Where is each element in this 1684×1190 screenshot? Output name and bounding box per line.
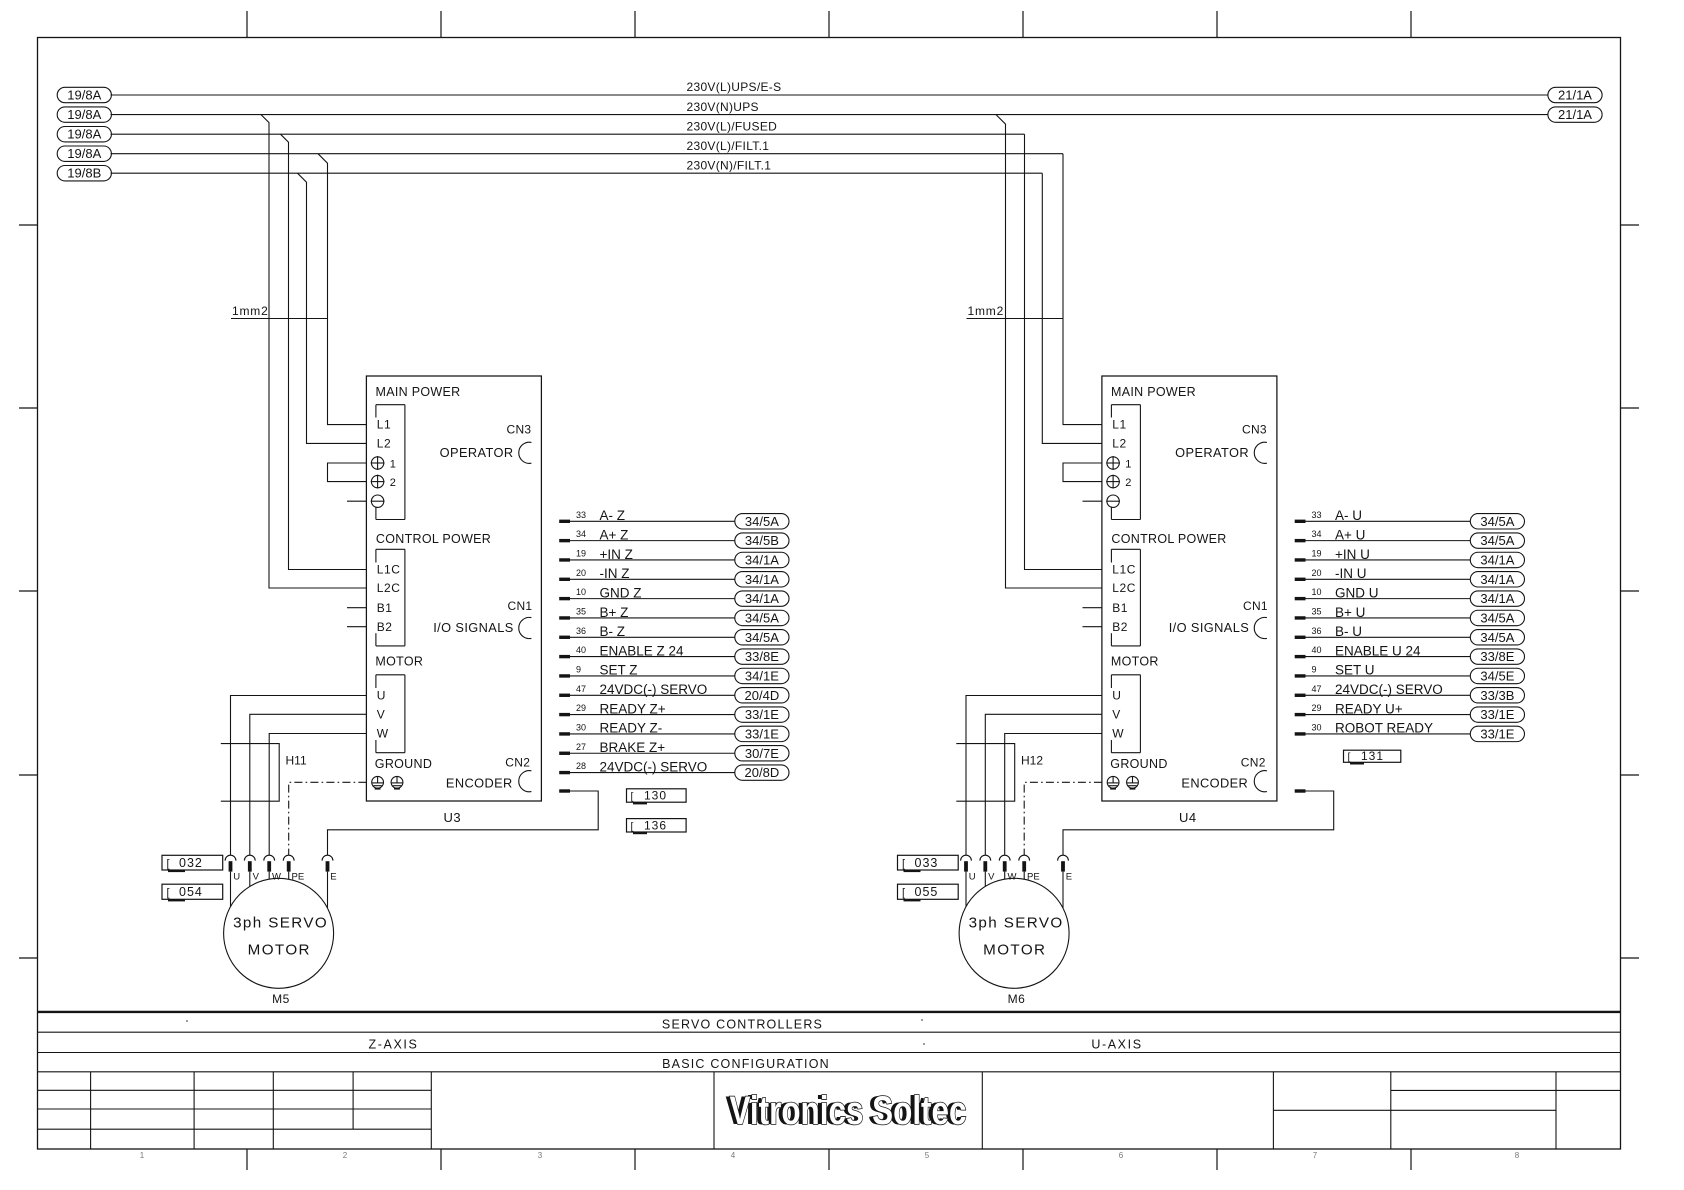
svg-text:READY Z-: READY Z- — [600, 721, 663, 736]
svg-text:19: 19 — [576, 549, 586, 559]
svg-text:35: 35 — [1312, 607, 1322, 617]
svg-text:34/1A: 34/1A — [745, 552, 779, 567]
svg-text:33/1E: 33/1E — [1480, 707, 1514, 722]
svg-text:V: V — [988, 872, 995, 883]
U4 pin 9 SET U wire to net 34/5E — [1295, 663, 1525, 684]
node ref 19/8A rail3 left — [57, 127, 111, 142]
drawing area bottom separator — [38, 1011, 1621, 1013]
U4 pin 36 B- U wire to net 34/5A — [1295, 624, 1525, 645]
svg-text:33/8E: 33/8E — [745, 649, 779, 664]
svg-text:19/8B: 19/8B — [67, 166, 101, 181]
U4 pin 30 ROBOT READY wire to net 33/1E — [1295, 721, 1525, 742]
svg-text:230V(L)UPS/E-S: 230V(L)UPS/E-S — [687, 80, 782, 94]
svg-text:[: [ — [167, 887, 170, 899]
svg-text:33/8E: 33/8E — [1480, 649, 1514, 664]
svg-text:OPERATOR: OPERATOR — [440, 445, 514, 460]
svg-text:230V(N)/FILT.1: 230V(N)/FILT.1 — [687, 158, 772, 172]
svg-text:GND Z: GND Z — [600, 585, 642, 600]
svg-text:B1: B1 — [377, 601, 393, 615]
svg-text:131: 131 — [1361, 749, 1384, 763]
U4 connector ENCODER — [1181, 771, 1266, 792]
cable box 033 — [898, 855, 959, 872]
wire M5 contact V into motor — [249, 872, 251, 887]
svg-text:36: 36 — [576, 626, 586, 636]
svg-text:1mm2: 1mm2 — [232, 304, 269, 318]
wire U4 W phase to motor M6 — [1005, 734, 1102, 856]
bottom margin zone ticks — [247, 1149, 1411, 1170]
U3 MAIN POWER terminal box — [376, 405, 405, 520]
svg-text:CN2: CN2 — [1241, 756, 1266, 770]
svg-text:CN3: CN3 — [1242, 423, 1267, 437]
U3 earth terminal 1 — [371, 456, 396, 471]
U3 pin 28 24VDC(-) SERVO wire to net 20/8D — [559, 759, 789, 780]
wire branch 230V(L)/FUSED to U3 L1C — [281, 134, 367, 569]
svg-text:34: 34 — [1312, 529, 1322, 539]
svg-text:34/5A: 34/5A — [745, 514, 779, 529]
svg-text:GROUND: GROUND — [375, 757, 432, 771]
svg-text:OPERATOR: OPERATOR — [1175, 445, 1249, 460]
U3 pin 47 24VDC(-) SERVO wire to net 20/4D — [559, 682, 789, 703]
svg-text:ENCODER: ENCODER — [1181, 776, 1248, 791]
svg-text:20: 20 — [1312, 568, 1322, 578]
U3 terminal B1 — [347, 601, 393, 615]
svg-text:GND U: GND U — [1335, 585, 1379, 600]
svg-text:A- Z: A- Z — [600, 508, 626, 523]
motor M5 plug contact E — [322, 855, 337, 882]
svg-text:READY U+: READY U+ — [1335, 701, 1403, 716]
wire M6 contact PE into motor — [1023, 872, 1025, 880]
right margin zone ticks — [1621, 225, 1640, 958]
svg-text:8: 8 — [1515, 1151, 1520, 1160]
svg-text:29: 29 — [576, 703, 586, 713]
svg-text:L1C: L1C — [1112, 563, 1136, 577]
svg-text:ENABLE U 24: ENABLE U 24 — [1335, 643, 1421, 658]
svg-text:Z-AXIS: Z-AXIS — [369, 1038, 419, 1052]
svg-text:10: 10 — [1312, 587, 1322, 597]
svg-text:33: 33 — [576, 510, 586, 520]
svg-text:29: 29 — [1312, 703, 1322, 713]
U3 pin 20 -IN Z wire to net 34/1A — [559, 566, 789, 587]
wire branch 230V(N)UPS to U3 L2C — [261, 115, 366, 588]
svg-text:20/4D: 20/4D — [745, 688, 780, 703]
svg-text:19: 19 — [1312, 549, 1322, 559]
U4 pin 20 -IN U wire to net 34/1A — [1295, 566, 1525, 587]
title block table — [38, 1072, 1621, 1149]
U3 pin 40 ENABLE Z 24 wire to net 33/8E — [559, 643, 789, 664]
wire U4 U phase to motor M6 — [966, 696, 1102, 856]
svg-text:7: 7 — [1313, 1151, 1318, 1160]
U4 jumper wire terminals 1-2 — [1063, 463, 1102, 482]
U3 encoder pin — [559, 789, 570, 792]
svg-text:CONTROL POWER: CONTROL POWER — [1111, 532, 1226, 546]
motor M6 3ph SERVO MOTOR — [959, 878, 1069, 988]
svg-text:[: [ — [902, 858, 905, 870]
svg-text:BRAKE Z+: BRAKE Z+ — [600, 740, 666, 755]
U4 terminal B1 — [1083, 601, 1129, 615]
svg-text:BASIC CONFIGURATION: BASIC CONFIGURATION — [662, 1057, 830, 1071]
wire ground dash-dot U4 to motor PE — [1024, 782, 1102, 855]
svg-text:MOTOR: MOTOR — [1111, 655, 1159, 669]
wire M6 contact E into motor — [1062, 872, 1064, 909]
svg-text:A- U: A- U — [1335, 508, 1362, 523]
cable box 136 — [627, 818, 687, 834]
svg-text:READY Z+: READY Z+ — [600, 701, 666, 716]
svg-text:U3: U3 — [444, 810, 462, 825]
U4 pin 47 24VDC(-) SERVO wire to net 33/3B — [1295, 682, 1525, 703]
wire M5 contact E into motor — [327, 872, 329, 909]
motor M6 plug contact PE — [1019, 855, 1040, 882]
wire rail net 230V(N)UPS — [111, 100, 1549, 115]
svg-text:U: U — [969, 872, 976, 883]
svg-text:230V(L)/FILT.1: 230V(L)/FILT.1 — [687, 139, 770, 153]
title band Z-AXIS / U-AXIS — [38, 1038, 1621, 1053]
U3 pin 33 A- Z wire to net 34/5A — [559, 508, 789, 529]
U4 encoder pin — [1295, 789, 1306, 792]
svg-text:4: 4 — [731, 1151, 736, 1160]
motor M5 plug contact V — [244, 855, 259, 882]
svg-text:230V(L)/FUSED: 230V(L)/FUSED — [687, 119, 778, 133]
bottom zone numbers — [140, 1151, 1520, 1160]
top margin zone ticks — [247, 11, 1411, 38]
svg-text:MOTOR: MOTOR — [983, 942, 1046, 959]
svg-text:136: 136 — [644, 818, 667, 832]
svg-text:L2C: L2C — [377, 581, 401, 595]
wire M6 contact V into motor — [984, 872, 986, 887]
svg-text:1mm2: 1mm2 — [968, 304, 1005, 318]
motor M5 plug contact PE — [283, 855, 304, 882]
ferrite core H12 — [956, 744, 1043, 802]
svg-text:L1C: L1C — [377, 563, 401, 577]
U4 block outline — [1102, 376, 1277, 801]
node ref 19/8A rail1 left — [57, 87, 111, 102]
svg-text:B- U: B- U — [1335, 624, 1362, 639]
svg-text:B2: B2 — [377, 620, 393, 634]
wire U3 V phase to motor M5 — [250, 714, 367, 855]
svg-text:W: W — [377, 727, 389, 741]
cable box 054 — [162, 884, 223, 901]
svg-text:34/5A: 34/5A — [1480, 514, 1514, 529]
U3 connector ENCODER — [446, 771, 531, 792]
motor M6 plug contact W — [999, 855, 1016, 882]
svg-text:SERVO CONTROLLERS: SERVO CONTROLLERS — [662, 1018, 823, 1032]
svg-text:+IN Z: +IN Z — [600, 547, 633, 562]
svg-text:3ph SERVO: 3ph SERVO — [969, 915, 1064, 932]
U3 pin 35 B+ Z wire to net 34/5A — [559, 605, 789, 626]
svg-text:19/8A: 19/8A — [67, 146, 101, 161]
node ref 21/1A rail1 right — [1548, 87, 1602, 102]
svg-text:MAIN POWER: MAIN POWER — [1111, 385, 1196, 399]
wire branch 230V(L)/FUSED to U4 L1C — [1025, 134, 1102, 569]
motor M5 plug contact W — [264, 855, 281, 882]
U4 pin 19 +IN U wire to net 34/1A — [1295, 547, 1525, 568]
svg-text:I/O SIGNALS: I/O SIGNALS — [433, 620, 514, 635]
svg-text:U: U — [1112, 689, 1121, 703]
node ref 21/1A rail2 right — [1548, 107, 1602, 122]
svg-text:24VDC(-) SERVO: 24VDC(-) SERVO — [600, 682, 708, 697]
U3 minus terminal stub wire — [347, 500, 366, 502]
U3 connector I/O SIGNALS — [433, 617, 531, 638]
motor M6 plug contact U — [961, 855, 976, 882]
svg-text:36: 36 — [1312, 626, 1322, 636]
svg-text:34/5B: 34/5B — [745, 533, 779, 548]
wire M5 contact W into motor — [268, 872, 270, 880]
wire branch 230V(L)/FILT.1 to U4 L1 — [1063, 154, 1102, 425]
svg-text:U-AXIS: U-AXIS — [1091, 1038, 1142, 1052]
svg-text:[: [ — [167, 858, 170, 870]
svg-text:24VDC(-) SERVO: 24VDC(-) SERVO — [1335, 682, 1443, 697]
svg-text:Vitronics Soltec: Vitronics Soltec — [730, 1089, 967, 1133]
wire ground dash-dot U3 to motor PE — [289, 782, 367, 855]
svg-text:L2C: L2C — [1112, 581, 1136, 595]
svg-text:1: 1 — [1125, 459, 1131, 471]
wire rail net 230V(L)/FUSED — [111, 119, 1025, 134]
svg-text:40: 40 — [1312, 645, 1322, 655]
svg-text:30: 30 — [1312, 723, 1322, 733]
svg-text:ENABLE Z 24: ENABLE Z 24 — [600, 643, 685, 658]
cable box 032 — [162, 855, 223, 872]
U3 terminal B2 — [347, 620, 393, 634]
svg-text:34/1A: 34/1A — [745, 572, 779, 587]
svg-text:054: 054 — [179, 885, 203, 899]
svg-text:E: E — [330, 872, 336, 883]
svg-text:CN2: CN2 — [505, 756, 530, 770]
svg-text:20: 20 — [576, 568, 586, 578]
node ref 19/8B rail5 left — [57, 166, 111, 181]
svg-text:055: 055 — [915, 885, 939, 899]
U3 connector OPERATOR — [440, 442, 532, 463]
U3 pin 10 GND Z wire to net 34/1A — [559, 585, 789, 606]
cable box 130 — [627, 789, 687, 805]
wire U4 encoder CN2 to motor M6 contact E — [1063, 791, 1334, 855]
annotation 1mm2 right — [967, 304, 1064, 319]
wire rail net 230V(L)/FILT.1 — [111, 139, 1063, 154]
svg-text:E: E — [1066, 872, 1072, 883]
svg-text:24VDC(-) SERVO: 24VDC(-) SERVO — [600, 759, 708, 774]
svg-text:B- Z: B- Z — [600, 624, 626, 639]
svg-text:B1: B1 — [1112, 601, 1128, 615]
svg-text:CN3: CN3 — [506, 423, 531, 437]
svg-text:9: 9 — [1312, 665, 1317, 675]
svg-text:21/1A: 21/1A — [1558, 88, 1592, 103]
U4 pin 35 B+ U wire to net 34/5A — [1295, 605, 1525, 626]
U3 CONTROL POWER terminal box — [376, 549, 405, 646]
svg-text:19/8A: 19/8A — [67, 107, 101, 122]
svg-text:A+ Z: A+ Z — [600, 527, 629, 542]
wire branch 230V(L)/FILT.1 to U3 L1 — [318, 154, 366, 425]
svg-text:33/1E: 33/1E — [745, 726, 779, 741]
wire U3 W phase to motor M5 — [269, 734, 366, 856]
motor M6 plug contact V — [980, 855, 995, 882]
U3 block outline — [366, 376, 541, 801]
U4 pin 40 ENABLE U 24 wire to net 33/8E — [1295, 643, 1525, 664]
wire M5 contact U into motor — [230, 872, 232, 907]
ferrite core H11 — [221, 744, 307, 802]
svg-text:3: 3 — [538, 1151, 543, 1160]
U3 earth terminal 2 — [371, 475, 396, 490]
svg-text:33/1E: 33/1E — [1480, 726, 1514, 741]
U3 pin 34 A+ Z wire to net 34/5B — [559, 527, 789, 548]
wire U3 U phase to motor M5 — [231, 696, 367, 856]
svg-text:032: 032 — [179, 856, 203, 870]
svg-text:B+ U: B+ U — [1335, 605, 1365, 620]
svg-text:34/5A: 34/5A — [1480, 610, 1514, 625]
U4 pin 33 A- U wire to net 34/5A — [1295, 508, 1525, 529]
U4 MOTOR terminal box — [1111, 675, 1140, 753]
svg-text:CN1: CN1 — [507, 599, 532, 613]
svg-text:2: 2 — [390, 477, 396, 489]
wire branch 230V(N)UPS to U4 L2C — [996, 115, 1102, 588]
svg-text:10: 10 — [576, 587, 586, 597]
motor M5 plug contact U — [225, 855, 240, 882]
U4 connector I/O SIGNALS — [1169, 617, 1267, 638]
svg-text:MAIN POWER: MAIN POWER — [376, 385, 461, 399]
U4 minus terminal stub wire — [1083, 500, 1102, 502]
wire M6 contact U into motor — [965, 872, 967, 907]
svg-text:34/5E: 34/5E — [1480, 668, 1514, 683]
svg-text:34: 34 — [576, 529, 586, 539]
svg-text:U: U — [377, 689, 386, 703]
svg-text:033: 033 — [915, 856, 939, 870]
annotation 1mm2 left — [231, 304, 328, 319]
svg-text:33/3B: 33/3B — [1480, 688, 1514, 703]
U3 ground terminal 1 — [372, 776, 384, 788]
svg-text:L1: L1 — [377, 418, 392, 432]
U4 CONTROL POWER terminal box — [1111, 549, 1140, 646]
U4 ground terminal 1 — [1107, 776, 1119, 788]
svg-text:2: 2 — [1125, 477, 1131, 489]
node ref 19/8A rail4 left — [57, 146, 111, 161]
left margin zone ticks — [19, 225, 38, 958]
svg-text:9: 9 — [576, 665, 581, 675]
svg-text:U: U — [233, 872, 240, 883]
svg-text:[: [ — [631, 820, 634, 832]
node ref 19/8A rail2 left — [57, 107, 111, 122]
svg-text:SET Z: SET Z — [600, 663, 638, 678]
U3 pin 9 SET Z wire to net 34/1E — [559, 663, 789, 684]
svg-text:CONTROL POWER: CONTROL POWER — [376, 532, 491, 546]
svg-text:34/1A: 34/1A — [1480, 591, 1514, 606]
svg-text:[: [ — [902, 887, 905, 899]
svg-text:47: 47 — [576, 684, 586, 694]
motor M5 3ph SERVO MOTOR — [224, 878, 334, 988]
U3 ground terminal 2 — [391, 776, 403, 788]
svg-text:34/5A: 34/5A — [1480, 630, 1514, 645]
U3 jumper wire terminals 1-2 — [328, 463, 367, 482]
svg-text:SET U: SET U — [1335, 663, 1375, 678]
svg-text:34/1E: 34/1E — [745, 668, 779, 683]
svg-text:2: 2 — [343, 1151, 348, 1160]
U3 pin 36 B- Z wire to net 34/5A — [559, 624, 789, 645]
U4 earth terminal 2 — [1106, 475, 1131, 490]
svg-text:20/8D: 20/8D — [745, 765, 780, 780]
motor M6 plug contact E — [1058, 855, 1073, 882]
svg-text:GROUND: GROUND — [1110, 757, 1167, 771]
svg-text:V: V — [253, 872, 260, 883]
svg-text:W: W — [272, 872, 281, 883]
U4 connector OPERATOR — [1175, 442, 1267, 463]
wire M5 contact PE into motor — [288, 872, 290, 880]
U3 MOTOR terminal box — [376, 675, 405, 753]
svg-text:35: 35 — [576, 607, 586, 617]
svg-text:30: 30 — [576, 723, 586, 733]
svg-text:34/5A: 34/5A — [745, 610, 779, 625]
title band SERVO CONTROLLERS — [38, 1018, 1621, 1033]
svg-text:47: 47 — [1312, 684, 1322, 694]
U4 minus terminal — [1107, 495, 1119, 507]
svg-text:L2: L2 — [377, 437, 392, 451]
svg-text:A+ U: A+ U — [1335, 527, 1365, 542]
svg-text:W: W — [1008, 872, 1017, 883]
U3 pin 27 BRAKE Z+ wire to net 30/7E — [559, 740, 789, 761]
cable box 055 — [898, 884, 959, 901]
servo controller U3 — [328, 376, 790, 825]
U3 pin 30 READY Z- wire to net 33/1E — [559, 721, 789, 742]
svg-text:ENCODER: ENCODER — [446, 776, 513, 791]
wire rail net 230V(N)/FILT.1 — [111, 158, 1043, 173]
U3 minus terminal — [371, 495, 383, 507]
svg-text:V: V — [377, 708, 386, 722]
cable box 131 — [1344, 749, 1401, 764]
svg-text:ROBOT READY: ROBOT READY — [1335, 721, 1433, 736]
wire U3 encoder CN2 to motor M5 contact E — [328, 791, 599, 855]
svg-text:[: [ — [631, 791, 634, 803]
wire U4 V phase to motor M6 — [985, 714, 1102, 855]
wire branch 230V(N)/FILT.1 to U3 L2 — [298, 173, 367, 443]
svg-text:M5: M5 — [272, 992, 290, 1006]
svg-text:MOTOR: MOTOR — [375, 655, 423, 669]
U4 pin 34 A+ U wire to net 34/5A — [1295, 527, 1525, 548]
wire branch 230V(N)/FILT.1 to U4 L2 — [1042, 173, 1102, 443]
svg-text:34/5A: 34/5A — [745, 630, 779, 645]
svg-text:MOTOR: MOTOR — [248, 942, 311, 959]
svg-text:W: W — [1112, 727, 1124, 741]
svg-text:B+ Z: B+ Z — [600, 605, 629, 620]
svg-text:+IN U: +IN U — [1335, 547, 1370, 562]
svg-text:19/8A: 19/8A — [67, 127, 101, 142]
svg-text:I/O SIGNALS: I/O SIGNALS — [1169, 620, 1250, 635]
wire rail net 230V(L)UPS/E-S — [111, 80, 1549, 95]
svg-text:M6: M6 — [1008, 992, 1026, 1006]
svg-text:V: V — [1112, 708, 1121, 722]
title band BASIC CONFIGURATION — [38, 1057, 1621, 1072]
svg-text:6: 6 — [1119, 1151, 1124, 1160]
svg-text:H11: H11 — [286, 754, 307, 768]
U4 MAIN POWER terminal box — [1111, 405, 1140, 520]
svg-text:5: 5 — [925, 1151, 930, 1160]
svg-text:34/1A: 34/1A — [1480, 572, 1514, 587]
U3 pin 29 READY Z+ wire to net 33/1E — [559, 701, 789, 722]
svg-text:-IN U: -IN U — [1335, 566, 1367, 581]
svg-text:L2: L2 — [1112, 437, 1127, 451]
svg-text:21/1A: 21/1A — [1558, 107, 1592, 122]
svg-text:27: 27 — [576, 742, 586, 752]
U3 pin 19 +IN Z wire to net 34/1A — [559, 547, 789, 568]
svg-text:3ph SERVO: 3ph SERVO — [233, 915, 328, 932]
svg-text:34/1A: 34/1A — [1480, 552, 1514, 567]
svg-text:CN1: CN1 — [1243, 599, 1268, 613]
svg-text:230V(N)UPS: 230V(N)UPS — [687, 100, 759, 114]
svg-text:L1: L1 — [1112, 418, 1127, 432]
U4 terminal B2 — [1083, 620, 1129, 634]
U4 pin 10 GND U wire to net 34/1A — [1295, 585, 1525, 606]
svg-text:U4: U4 — [1179, 810, 1197, 825]
svg-text:-IN Z: -IN Z — [600, 566, 630, 581]
svg-text:19/8A: 19/8A — [67, 88, 101, 103]
wire M6 contact W into motor — [1004, 872, 1006, 880]
servo controller U4 — [1063, 376, 1525, 825]
company logo Vitronics Soltec — [726, 1089, 967, 1133]
U4 earth terminal 1 — [1106, 456, 1131, 471]
